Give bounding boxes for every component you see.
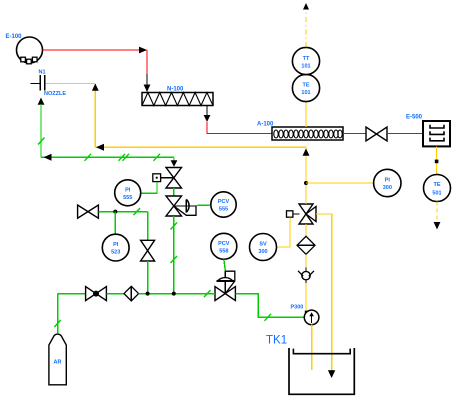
instrument TE-501 — [424, 175, 451, 202]
node junction — [172, 292, 176, 296]
static mixer N-100 — [142, 93, 213, 106]
svg-text:TE: TE — [302, 83, 309, 89]
wire yellow dash-dot signal to top arrow — [303, 3, 309, 47]
wire green valve outlet to pump — [235, 294, 304, 321]
instrument PI-555 — [115, 180, 141, 206]
wire yellow riser A-100 to instruments — [305, 102, 307, 128]
node junction to PI-523 — [113, 210, 117, 214]
svg-text:PI: PI — [113, 242, 119, 248]
wire green PI-555 to actuator — [142, 182, 157, 194]
svg-text:TK1: TK1 — [266, 335, 287, 347]
wire green cylinder riser — [54, 294, 85, 333]
heater coil A-100 — [272, 127, 343, 140]
hand valve left branch — [78, 205, 99, 218]
wire yellow dashed signal below TE-501 — [434, 202, 441, 230]
wire green drop from PCV-555 valve — [171, 216, 178, 294]
wire red pipe N-100 to A-100 — [204, 106, 272, 134]
diaphragm control valve bottom — [215, 271, 235, 300]
instrument PI-523 — [102, 234, 129, 261]
wire yellow filter to check valve — [305, 254, 307, 269]
svg-text:PCV: PCV — [218, 199, 230, 205]
wire yellow check valve to pump — [305, 283, 307, 312]
tank TK1 — [289, 348, 354, 394]
svg-text:AR: AR — [54, 360, 62, 366]
three-way valve — [299, 204, 316, 224]
svg-text:300: 300 — [258, 249, 267, 255]
hand valve vertical branch — [141, 240, 155, 261]
svg-text:TT: TT — [303, 56, 310, 62]
svg-text:PCV: PCV — [218, 241, 230, 247]
furnace E-500 — [423, 121, 450, 146]
wire red pipe valve to E-500 — [387, 133, 423, 135]
wire green feed to nozzle — [38, 98, 178, 167]
instrument TE-101 — [292, 74, 319, 101]
node junction — [146, 292, 150, 296]
wire yellow main from three-way valve up and left to nozzle — [46, 84, 310, 205]
svg-text:PI: PI — [385, 178, 391, 184]
ball check valve — [298, 268, 314, 284]
wire green to PCV-555 bulb — [196, 204, 211, 207]
wire red pipe E-100 to N-100 — [43, 47, 151, 92]
nozzle N1 — [31, 75, 45, 91]
svg-text:P300: P300 — [291, 305, 304, 311]
control valve PV-1 with square actuator — [153, 168, 182, 189]
pump P300 — [304, 310, 319, 325]
svg-text:N1: N1 — [39, 70, 46, 76]
inline check diamond — [124, 286, 139, 301]
svg-text:NOZZLE: NOZZLE — [44, 91, 66, 97]
wire green to inline check — [106, 293, 124, 295]
wire green to PI-523 — [114, 212, 116, 235]
svg-text:300: 300 — [383, 185, 392, 191]
svg-text:SV: SV — [259, 242, 267, 248]
svg-text:101: 101 — [301, 64, 310, 70]
svg-text:555: 555 — [219, 207, 228, 213]
svg-text:558: 558 — [219, 248, 228, 254]
svg-text:N-100: N-100 — [167, 87, 184, 93]
instrument PCV-558 — [211, 233, 237, 259]
instrument PI-300 — [374, 169, 401, 196]
wire green main bottom line — [139, 290, 215, 297]
svg-text:E-500: E-500 — [406, 115, 423, 121]
instrument SV-300 — [250, 234, 277, 261]
wire green valve to main line — [147, 261, 149, 294]
svg-text:555: 555 — [123, 195, 132, 201]
wire green PCV-558 to valve — [224, 259, 226, 271]
instrument PCV-555 — [211, 192, 236, 217]
compressor E-100 — [17, 37, 43, 64]
filter diamond — [297, 236, 315, 254]
gas cylinder AR — [49, 334, 66, 385]
wire yellow three-way valve to filter — [305, 224, 307, 236]
wire yellow E-500 to TE-501 — [435, 146, 439, 174]
node junction on yellow riser — [304, 181, 308, 185]
wire yellow three-way valve branch to tank — [316, 214, 335, 378]
ball valve — [86, 287, 107, 301]
svg-text:PI: PI — [125, 187, 131, 193]
svg-text:101: 101 — [301, 90, 310, 96]
wire yellow SV-300 to valve actuator — [277, 218, 291, 248]
wire yellow branch to PI-300 — [306, 182, 373, 184]
hand valve on red line — [366, 127, 387, 141]
wire green between valves — [173, 188, 175, 196]
svg-text:523: 523 — [111, 250, 120, 256]
wire yellow pump to tank — [311, 325, 313, 370]
svg-text:E-100: E-100 — [6, 34, 23, 40]
wire red pipe A-100 to valve — [343, 133, 366, 135]
wire green branch line — [98, 208, 147, 240]
svg-text:TE: TE — [433, 182, 440, 188]
svg-text:A-100: A-100 — [257, 122, 274, 128]
instrument TT-101 — [292, 47, 319, 74]
actuator square of three-way valve — [287, 211, 300, 217]
self-regulating valve PCV-555 — [166, 196, 196, 216]
svg-text:501: 501 — [432, 191, 441, 197]
